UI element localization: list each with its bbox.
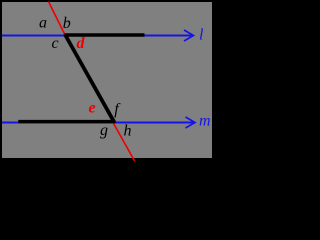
svg-text:h: h bbox=[124, 123, 132, 140]
transversal red ray below line m bbox=[112, 121, 134, 161]
svg-text:e: e bbox=[89, 100, 96, 117]
svg-text:g: g bbox=[100, 122, 108, 139]
svg-text:d: d bbox=[77, 35, 86, 52]
thick segment on line l from intersection b rightward bbox=[65, 33, 145, 36]
line m (blue, arrow right) bbox=[2, 122, 194, 124]
arrowhead of line m bbox=[186, 117, 196, 128]
svg-text:a: a bbox=[39, 15, 47, 32]
svg-text:l: l bbox=[199, 27, 204, 44]
arrowhead of line l bbox=[184, 30, 194, 41]
thick segment on line m up to intersection g bbox=[18, 120, 115, 123]
transversal red ray above line l bbox=[49, 2, 67, 39]
black canvas background bbox=[0, 0, 224, 162]
svg-text:c: c bbox=[52, 35, 59, 52]
svg-text:m: m bbox=[199, 113, 211, 130]
thick transversal segment between intersections bbox=[65, 35, 114, 123]
line l (blue, arrow right) bbox=[2, 35, 193, 37]
gray drawing area bbox=[2, 2, 212, 158]
svg-text:b: b bbox=[63, 15, 71, 32]
